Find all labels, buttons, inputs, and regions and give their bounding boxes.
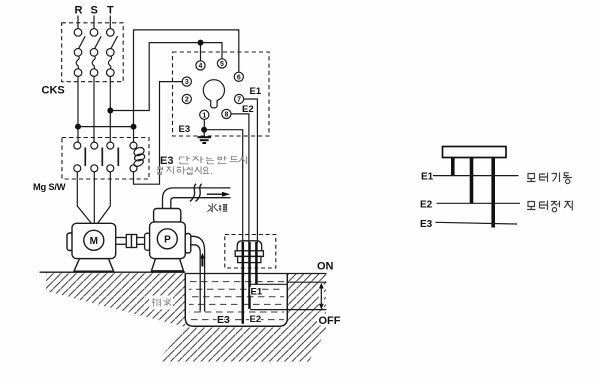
water surface dash rows [189,282,284,320]
ground surface / ON level line right [185,273,326,275]
wire terminal 1 to earth and electrode E3 [204,119,243,243]
pump P body [150,209,191,271]
svg-text:8: 8 [224,112,228,119]
svg-text:E1: E1 [421,171,434,182]
supply stub S [93,16,95,30]
motor M body [67,223,116,271]
OFF level line [250,309,326,311]
detail electrode E2 (middle) [470,158,474,204]
terminal 2 [182,94,191,103]
contactor coil [130,142,145,172]
terminal 4 [196,61,205,70]
svg-text:S: S [91,5,98,17]
svg-text:E1: E1 [250,86,262,97]
wire coil bottom to relay terminal 3 [134,82,184,185]
junction dot on R phase [75,124,81,130]
flow arrow to tank [207,192,230,197]
svg-text:E3: E3 [217,314,230,326]
svg-text:T: T [107,5,114,17]
svg-text:E3: E3 [160,155,173,167]
socket center keyhole [203,80,224,108]
wire T phase down to contactor [109,76,111,142]
wire T branch to relay terminals 4,5 [110,43,222,111]
svg-text:4: 4 [199,63,203,70]
svg-text:ON: ON [317,261,334,273]
wire branch to relay terminal 4 [200,43,202,62]
pump P discharge pipe [163,188,231,209]
electrode holder box (dashed) [225,235,276,269]
svg-text:R: R [75,5,83,17]
wire terminal 8 to electrode E2 [231,114,249,243]
svg-text:E2: E2 [420,199,433,210]
ON-OFF range arrow [319,283,324,310]
shaft coupling [116,233,151,250]
level switch unit box (dashed) [173,52,270,136]
junction dot below terminal 1 [201,127,207,133]
svg-text:Mg S/W: Mg S/W [33,182,66,192]
label 모터정지 (motor stop) [527,201,572,212]
E1 level line [433,175,519,177]
ground hatch right of pit and below pit [157,274,326,362]
label 水槽 (water tank) [207,203,227,212]
svg-text:CKS: CKS [42,85,65,97]
detail electrode E3 (long) [491,158,495,228]
svg-text:E3: E3 [179,124,191,135]
drain label 排水 [149,296,173,310]
junction dot on T phase [107,108,113,114]
CKS pole S: terminals, blade, fuse [90,29,101,77]
contactor pole 3 [107,142,119,172]
svg-text:2: 2 [185,97,189,104]
wire R phase down to contactor [77,76,79,142]
svg-text:E1: E1 [251,287,263,298]
electrode rod E3 (long) [242,242,245,324]
label OFF [317,314,342,327]
E2 level line [437,202,521,204]
wire contactor pole2 to motor [93,172,95,224]
contactor pole 1 [74,142,86,172]
suction flow arrow [200,253,204,267]
terminal 3 [182,77,191,86]
ground hatch left of pit [46,273,185,327]
junction dot above coil [131,124,137,130]
terminal 7 [235,94,244,103]
terminal 1 [200,110,209,119]
supply stub R [77,16,79,30]
electrode holder block (right detail) [443,147,507,158]
svg-text:M: M [90,236,98,247]
magnetic switch box Mg S/W (dashed) [62,138,149,180]
label ON [315,259,336,273]
arrow upper boundary line [287,281,326,283]
svg-text:5: 5 [220,61,224,68]
electrode rod E1 (short) [255,242,258,285]
junction dot above terminal 4 [198,40,204,46]
CKS pole T: terminals, blade, fuse [107,29,118,77]
wire R branch to coil and terminal 6 [78,30,239,142]
wire terminal 7 to electrode E1 [244,99,258,243]
svg-text:E3: E3 [420,219,433,230]
wire contactor pole1 to motor [77,172,91,224]
svg-text:7: 7 [237,97,241,104]
knife-switch box CKS (dashed) [62,23,123,82]
svg-text:1: 1 [202,112,206,119]
electrode rod E2 (middle) [248,242,251,309]
terminal 6 [234,72,243,81]
label 모터기동 (motor start) [527,173,572,184]
contactor pole 2 [91,142,103,172]
svg-text:6: 6 [237,74,241,81]
electrode holder cap [235,241,263,263]
note line 2: 접지하십시오. [157,166,212,174]
earth ground symbol [198,137,212,143]
water tank pit outline [185,273,287,326]
CKS pole R: terminals, blade, fuse [74,29,85,77]
ground surface line left [40,271,186,273]
E1 level zone box in tank [250,283,287,285]
supply stub T [109,16,111,30]
detail electrode E1 (short) [451,158,455,177]
terminal 5 [217,59,226,68]
wire contactor pole3 to motor [98,172,111,224]
wire S phase down to contactor [93,76,95,142]
E3 level line [436,222,518,224]
svg-text:3: 3 [185,79,189,86]
terminal 8 [222,109,231,118]
svg-text:P: P [164,235,171,246]
svg-text:E2: E2 [250,314,262,325]
svg-text:OFF: OFF [319,315,341,327]
suction pipe into pit [191,236,205,311]
pipe break marks [190,184,202,202]
